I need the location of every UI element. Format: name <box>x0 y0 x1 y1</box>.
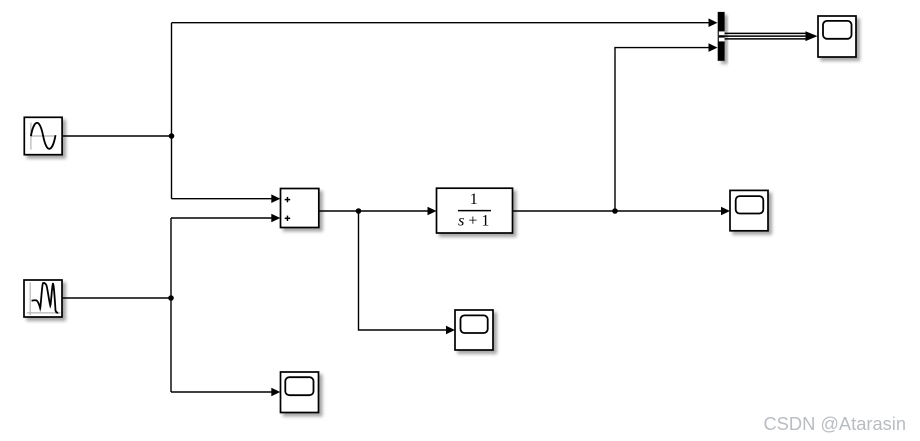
Sine Wave block <box>24 117 62 154</box>
wire: junction C branch down to Scope3 <box>359 211 447 330</box>
wire: Mux vector output to Scope1 (triple line) <box>725 33 806 39</box>
arrowhead into Scope1 (wide signal) <box>806 31 818 41</box>
sine icon axes <box>30 123 32 150</box>
wire: Sine Wave output to junction A <box>62 135 172 137</box>
mux output notch (white) <box>719 31 725 41</box>
svg-text:s + 1: s + 1 <box>458 212 489 229</box>
arrowhead into Scope3 <box>446 326 455 335</box>
watermark CSDN @Atarasin <box>763 413 906 435</box>
mux output middle stub <box>719 35 725 37</box>
Sum block (Add) <box>281 189 319 228</box>
arrowhead into Transfer Fcn <box>428 207 437 216</box>
plus sign input 2 <box>285 216 291 221</box>
wire: vertical branch from junction A up to top rail and down to Sum input 1 <box>171 23 173 199</box>
wire: junction B branch to Sum input 2 <box>171 217 272 219</box>
node B junction dot <box>168 295 174 301</box>
svg-text:1: 1 <box>470 191 478 208</box>
arrowhead into Sum input 2 <box>271 214 280 223</box>
node A junction dot <box>169 133 175 139</box>
sine icon curve <box>31 123 56 149</box>
arrowhead into Mux input 1 <box>709 18 718 27</box>
node D junction dot on Transfer Fcn output <box>612 208 618 214</box>
Scope1 block (top right) <box>818 16 856 57</box>
Scope4 block (bottom left) <box>281 372 319 413</box>
Mux block <box>718 12 725 61</box>
wire: Chirp output to junction B <box>62 297 171 299</box>
wire: top rail to Mux input 1 <box>172 22 710 24</box>
Scope3 block (middle bottom) <box>455 310 493 350</box>
wire: Sum output to Transfer Fcn input <box>319 210 428 212</box>
chirp icon axes <box>29 282 31 315</box>
arrowhead into Scope4 <box>271 388 280 397</box>
wire: Transfer Fcn output to Scope2 <box>513 210 722 212</box>
Transfer Fcn block U1: 1/(s+1) <box>437 188 513 233</box>
wire: junction D branch up to Mux input 2 <box>615 48 709 211</box>
plus sign input 1 <box>285 197 291 202</box>
Chirp Signal block <box>24 280 62 317</box>
wire: vertical branch from junction B up to Sum input 2 and down to Scope4 <box>170 218 172 392</box>
arrowhead into Mux input 2 <box>709 43 718 52</box>
wire: junction B branch to Scope4 <box>171 391 272 393</box>
arrowhead into Sum input 1 <box>271 194 280 203</box>
Scope2 block (right middle) <box>730 190 768 230</box>
wire: junction A branch to Sum input 1 <box>172 198 272 200</box>
arrowhead into Scope2 <box>721 207 730 216</box>
node C junction dot on Sum output <box>356 208 362 214</box>
fraction bar <box>458 210 491 212</box>
chirp icon curve <box>32 283 59 313</box>
